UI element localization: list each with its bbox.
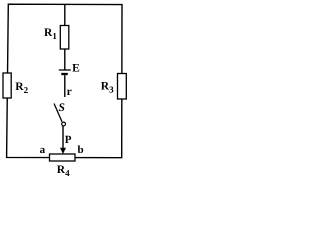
svg-text:E: E (72, 63, 80, 75)
svg-text:r: r (67, 86, 72, 98)
svg-text:R1: R1 (44, 27, 57, 41)
svg-text:a: a (40, 144, 46, 156)
svg-text:R4: R4 (57, 164, 70, 178)
svg-text:R2: R2 (15, 81, 28, 95)
svg-text:S: S (59, 102, 65, 114)
svg-text:R3: R3 (101, 81, 114, 95)
svg-text:b: b (78, 144, 84, 156)
svg-text:P: P (65, 134, 72, 146)
